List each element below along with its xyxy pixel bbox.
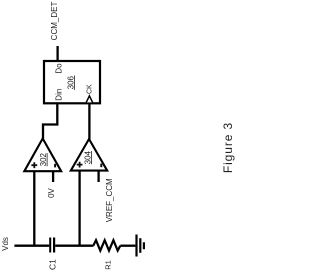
label R1 [103,260,112,270]
caption Figure 3 [221,122,235,173]
svg-text:C1: C1 [47,259,57,270]
op-amp comparator 302 [24,139,61,172]
wire CK pin to comparator 304 output [88,103,90,140]
op-amp comparator 304 [71,139,107,171]
capacitor C1 [50,238,54,253]
wire 304 - input stub (VREF_CCM) [97,171,99,182]
ground symbol [137,235,144,257]
net label 0V [47,187,56,197]
net label Vds [1,237,10,251]
label C1 [47,259,57,270]
wire 302 + input to Vds bus [33,171,35,246]
reference designator 302 [39,152,48,166]
svg-text:Vds: Vds [1,237,10,251]
pin label Do [55,63,64,74]
svg-text:CCM_DET: CCM_DET [50,2,59,41]
pin label Din [54,89,63,101]
svg-text:306: 306 [66,75,75,89]
wire Vds bus left segment [14,245,49,247]
svg-text:302: 302 [39,152,48,166]
svg-text:VREF_CCM: VREF_CCM [105,178,114,222]
wire R1 to ground [120,245,135,247]
reference designator 306 [66,75,75,89]
resistor R1 [93,240,120,250]
net label CCM_DET [50,2,59,41]
flip-flop 306 box [44,61,100,103]
net label VREF_CCM [105,178,114,222]
wire 302 - input stub (0V) [52,171,54,182]
svg-text:Din: Din [54,89,63,101]
svg-text:Figure 3: Figure 3 [221,122,235,173]
svg-text:304: 304 [83,150,92,164]
wire 304 + input to Vds bus [78,171,80,246]
pin label CK [86,84,93,94]
reference designator 304 [83,150,92,164]
svg-text:0V: 0V [47,187,56,197]
svg-text:R1: R1 [103,260,112,270]
svg-text:Do: Do [55,63,64,74]
clock edge triangle on CK pin [86,96,92,103]
wire CCM_DET to flip-flop Do pin [56,46,58,61]
svg-text:CK: CK [86,84,93,94]
wire bus between C1 and R1 [55,245,93,247]
wire Din pin to comparator 302 output [43,103,57,139]
